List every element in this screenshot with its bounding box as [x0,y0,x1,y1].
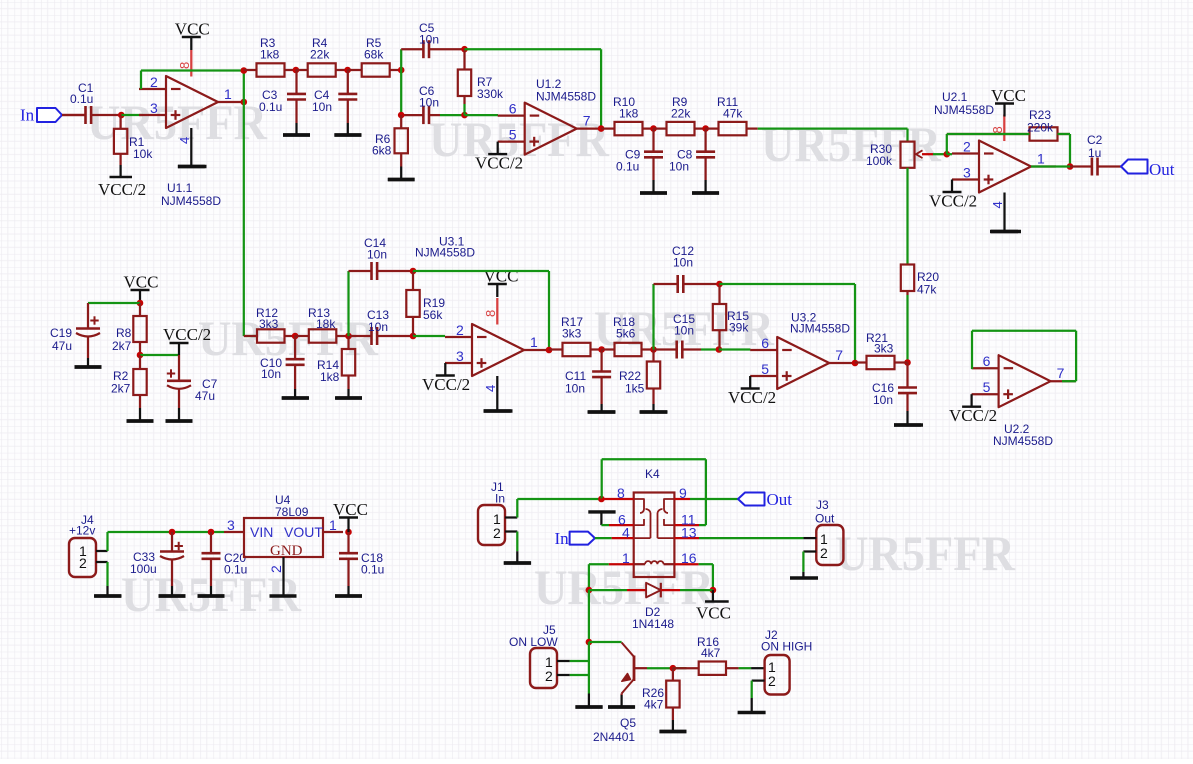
svg-text:+12v: +12v [69,524,95,538]
svg-text:U2.1: U2.1 [942,90,968,104]
svg-text:22k: 22k [671,107,691,121]
svg-text:VCC: VCC [333,500,368,519]
svg-text:VCC/2: VCC/2 [949,406,997,425]
svg-text:39k: 39k [729,321,749,335]
svg-text:1k8: 1k8 [619,107,639,121]
svg-text:5: 5 [983,379,991,395]
svg-text:100k: 100k [866,154,893,168]
svg-text:4k7: 4k7 [644,698,664,712]
svg-text:6k8: 6k8 [372,144,392,158]
svg-text:1: 1 [224,86,232,102]
svg-text:10n: 10n [367,248,387,262]
svg-text:1: 1 [622,550,630,566]
svg-text:7: 7 [835,347,843,363]
svg-text:4: 4 [990,201,1005,208]
svg-text:1u: 1u [1088,146,1101,160]
svg-text:2: 2 [456,322,464,338]
svg-text:10n: 10n [368,320,388,334]
svg-text:R8: R8 [116,326,132,340]
svg-text:In: In [20,106,35,125]
svg-text:1: 1 [329,517,337,533]
svg-text:VCC/2: VCC/2 [163,325,211,344]
svg-text:3k3: 3k3 [562,327,582,341]
svg-text:10n: 10n [419,33,439,47]
svg-text:VOUT: VOUT [284,524,323,540]
svg-text:47u: 47u [52,339,72,353]
svg-text:3: 3 [456,348,464,364]
svg-text:0.1u: 0.1u [361,563,384,577]
svg-text:330k: 330k [477,87,504,101]
svg-text:10k: 10k [133,147,153,161]
svg-text:2: 2 [545,668,553,684]
svg-text:10n: 10n [673,256,693,270]
svg-text:1k5: 1k5 [625,382,645,396]
svg-text:NJM4558D: NJM4558D [790,322,850,336]
svg-text:VCC/2: VCC/2 [728,388,776,407]
svg-text:K4: K4 [645,467,660,481]
svg-text:3k3: 3k3 [874,342,894,356]
svg-text:10n: 10n [873,393,893,407]
svg-text:2: 2 [268,565,284,573]
svg-text:ON LOW: ON LOW [509,635,558,649]
svg-text:2: 2 [79,555,87,571]
svg-text:2: 2 [493,525,501,541]
svg-text:1k8: 1k8 [320,370,340,384]
svg-text:2: 2 [150,74,158,90]
svg-text:J3: J3 [816,498,829,512]
svg-text:8: 8 [177,62,192,69]
svg-text:C2: C2 [1087,133,1103,147]
svg-text:VCC: VCC [991,86,1026,105]
svg-text:5: 5 [509,127,517,143]
svg-text:0.1u: 0.1u [616,160,639,174]
svg-text:56k: 56k [423,308,443,322]
svg-text:2: 2 [820,545,828,561]
svg-text:C19: C19 [50,326,72,340]
svg-text:VCC/2: VCC/2 [929,192,977,211]
svg-text:10n: 10n [565,382,585,396]
svg-text:NJM4558D: NJM4558D [993,434,1053,448]
svg-text:VCC: VCC [175,20,210,39]
svg-text:Out: Out [767,490,793,509]
svg-text:2k7: 2k7 [112,339,132,353]
svg-text:VCC/2: VCC/2 [475,154,523,173]
svg-text:VCC/2: VCC/2 [422,375,470,394]
svg-text:8: 8 [483,310,498,317]
svg-text:GND: GND [270,543,303,559]
svg-text:UR5FFR: UR5FFR [835,525,1016,581]
svg-text:Q5: Q5 [620,716,636,730]
svg-text:10n: 10n [674,324,694,338]
svg-text:3: 3 [227,517,235,533]
svg-text:NJM4558D: NJM4558D [415,246,475,260]
svg-text:ON HIGH: ON HIGH [761,640,812,654]
svg-text:47k: 47k [917,283,937,297]
svg-text:10n: 10n [261,367,281,381]
svg-text:4: 4 [622,525,630,541]
svg-text:NJM4558D: NJM4558D [934,103,994,117]
svg-text:8: 8 [617,485,625,501]
svg-text:VCC: VCC [696,604,731,623]
svg-text:8: 8 [990,126,1005,133]
svg-text:5: 5 [761,361,769,377]
svg-text:220k: 220k [1027,121,1054,135]
svg-text:In: In [555,529,570,548]
svg-text:10n: 10n [419,96,439,110]
svg-text:13: 13 [681,525,697,541]
svg-text:78L09: 78L09 [275,505,309,519]
svg-text:1: 1 [1037,151,1045,167]
svg-text:UR5FFR: UR5FFR [198,310,379,366]
svg-text:2N4401: 2N4401 [593,730,635,744]
svg-text:6: 6 [983,353,991,369]
svg-text:Out: Out [815,512,835,526]
svg-text:7: 7 [1057,365,1065,381]
svg-text:4k7: 4k7 [701,646,721,660]
svg-text:VCC: VCC [484,267,519,286]
svg-text:4: 4 [483,385,498,392]
svg-text:VCC: VCC [124,273,159,292]
svg-text:68k: 68k [364,48,384,62]
svg-text:22k: 22k [310,48,330,62]
svg-text:3: 3 [150,100,158,116]
svg-text:16: 16 [681,550,697,566]
svg-text:0.1u: 0.1u [259,100,282,114]
svg-text:2: 2 [963,139,971,155]
svg-text:NJM4558D: NJM4558D [161,194,221,208]
svg-text:Out: Out [1149,160,1175,179]
svg-text:VCC/2: VCC/2 [98,180,146,199]
svg-text:2k7: 2k7 [111,382,131,396]
svg-text:In: In [495,492,505,506]
svg-text:NJM4558D: NJM4558D [536,90,596,104]
svg-text:0.1u: 0.1u [224,563,247,577]
svg-text:100u: 100u [130,562,157,576]
svg-text:2: 2 [768,673,776,689]
svg-text:U1.1: U1.1 [167,181,193,195]
svg-text:6: 6 [509,101,517,117]
svg-text:7: 7 [583,113,591,129]
svg-text:VIN: VIN [250,524,273,540]
svg-text:47k: 47k [723,107,743,121]
svg-text:10n: 10n [312,100,332,114]
svg-text:47u: 47u [195,389,215,403]
svg-text:6: 6 [761,335,769,351]
svg-text:1k8: 1k8 [260,48,280,62]
svg-text:4: 4 [177,137,192,144]
svg-text:18k: 18k [316,317,336,331]
svg-text:9: 9 [679,485,687,501]
svg-text:10n: 10n [669,160,689,174]
svg-text:3: 3 [963,165,971,181]
svg-text:1: 1 [530,334,538,350]
svg-text:5k6: 5k6 [616,327,636,341]
svg-text:1N4148: 1N4148 [632,617,674,631]
svg-text:0.1u: 0.1u [70,92,93,106]
svg-text:3k3: 3k3 [259,317,279,331]
svg-text:UR5FFR: UR5FFR [534,559,715,615]
